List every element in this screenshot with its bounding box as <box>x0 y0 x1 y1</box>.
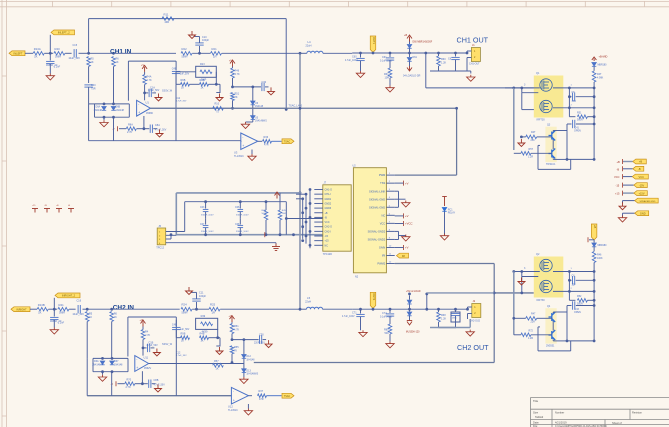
svg-text:TPC12D: TPC12D <box>323 253 332 256</box>
svg-text:R4B: R4B <box>200 332 205 335</box>
resistor R4B <box>200 83 209 87</box>
svg-text:Title: Title <box>533 399 539 403</box>
svg-text:R8A: R8A <box>128 123 133 126</box>
junction out 2 <box>425 308 428 311</box>
capacitor C16 series <box>78 305 80 313</box>
resistor R4B2 <box>142 327 144 330</box>
ground C8B <box>155 385 162 393</box>
svg-text:1K: 1K <box>201 86 204 89</box>
resistor R52b <box>521 333 531 337</box>
wire <box>231 354 233 363</box>
wire gate rails <box>505 87 540 89</box>
power -B harness <box>622 166 624 171</box>
svg-text:GAIN: GAIN <box>379 246 385 250</box>
wire <box>372 308 375 311</box>
ground big <box>618 216 626 223</box>
svg-text:D12: D12 <box>246 355 251 358</box>
wire relay <box>444 212 446 235</box>
svg-text:1K: 1K <box>181 340 184 343</box>
wire <box>111 322 113 359</box>
ground <box>49 64 51 74</box>
capacitor C11 <box>196 302 198 309</box>
wire <box>232 101 234 109</box>
op-amp U11 <box>135 356 149 372</box>
resistor R40 <box>54 52 65 56</box>
wire Q3 inner box <box>553 130 567 132</box>
sheet border inner <box>0 6 669 8</box>
power +V U1 <box>142 65 147 72</box>
wire <box>176 337 180 339</box>
resistor R41 <box>58 307 69 311</box>
ground C30 <box>268 87 275 95</box>
svg-text:15R: 15R <box>572 100 577 103</box>
svg-text:GND2: GND2 <box>325 202 332 205</box>
wire inner rect 2 <box>128 316 176 318</box>
svg-text:1uF_50V: 1uF_50V <box>180 74 190 76</box>
wire U12 input <box>231 395 233 397</box>
svg-text:25K: 25K <box>531 139 536 142</box>
wire V2 PWM1 loop <box>456 108 458 175</box>
svg-text:CH1-I: CH1-I <box>325 193 332 196</box>
power symbol 3 <box>56 209 62 213</box>
wire <box>300 308 307 310</box>
wire pin stubs <box>166 231 185 233</box>
svg-text:R21: R21 <box>212 47 218 51</box>
svg-text:R9B: R9B <box>181 79 186 82</box>
svg-text:C60: C60 <box>352 56 357 59</box>
power +V mid <box>230 60 235 67</box>
svg-text:PWM: PWM <box>379 173 385 177</box>
wire Q4 outer box <box>537 327 539 351</box>
svg-text:599R: 599R <box>59 311 65 314</box>
svg-text:TPC12: TPC12 <box>156 247 164 250</box>
svg-text:4.7uF_50V: 4.7uF_50V <box>146 345 158 347</box>
connector J2 <box>472 304 481 318</box>
svg-text:SSSV_W: SSSV_W <box>162 343 173 346</box>
diode D6A 1N4148 <box>102 107 106 111</box>
resistor R61 <box>388 68 392 78</box>
svg-text:1K: 1K <box>34 55 38 59</box>
svg-text:1N4148WS: 1N4148WS <box>246 374 258 376</box>
svg-text:R41: R41 <box>59 303 65 307</box>
svg-text:+V: +V <box>405 181 409 185</box>
resistor R10 on rail <box>213 107 224 111</box>
svg-text:04-LOADLO-DR: 04-LOADLO-DR <box>403 75 421 78</box>
ground mid <box>216 92 220 94</box>
power +B arrow <box>407 35 412 42</box>
gnd port <box>623 212 635 214</box>
resistor R6B vertical <box>110 312 114 322</box>
svg-text:TSAC: TSAC <box>284 395 291 398</box>
wire <box>65 52 72 54</box>
power VCC harness <box>622 174 624 179</box>
power symbol 4 <box>68 209 74 213</box>
svg-text:500: 500 <box>385 332 390 335</box>
svg-text:U11: U11 <box>144 356 149 360</box>
wire <box>209 337 221 339</box>
resistor R63 <box>437 308 440 311</box>
svg-text:C61: C61 <box>382 56 387 59</box>
port CH1 tag <box>282 139 294 144</box>
wire <box>593 240 595 243</box>
diode U6 1N4148 <box>251 101 255 105</box>
svg-text:VCC: VCC <box>325 221 330 224</box>
connector J5 TPC12 <box>157 228 166 245</box>
svg-text:+: + <box>136 366 138 370</box>
wire <box>44 52 53 54</box>
svg-text:2.7K: 2.7K <box>126 386 131 389</box>
wire <box>300 52 307 54</box>
svg-text:OUT2: OUT2 <box>372 293 376 300</box>
svg-text:1N4148WS: 1N4148WS <box>255 121 267 123</box>
svg-text:-15: -15 <box>616 184 620 188</box>
wire <box>49 35 51 61</box>
wire <box>137 128 150 130</box>
svg-text:4.99K: 4.99K <box>597 77 604 80</box>
wire bypass rail1 left drop <box>175 193 177 235</box>
capacitor C62 <box>568 95 571 98</box>
resistor R51B <box>230 346 234 354</box>
junction dots clamp 2 <box>101 357 104 360</box>
resistor R21 <box>211 52 222 56</box>
diode U5 1N4148WS <box>251 116 255 120</box>
power arrow bypass <box>275 192 280 199</box>
ground C8A <box>156 130 163 138</box>
power +15 harness <box>622 191 624 196</box>
svg-text:+: + <box>233 398 235 402</box>
wire inner rect 1 <box>128 60 176 62</box>
power +V pin2 <box>403 181 405 186</box>
power +B harness <box>622 159 624 164</box>
capacitor C50 <box>260 335 262 343</box>
svg-text:U12: U12 <box>228 405 233 409</box>
diode D61 <box>409 53 411 57</box>
power +V pin6 <box>403 213 405 218</box>
svg-text:GND1: GND1 <box>325 198 332 201</box>
svg-text:VCC: VCC <box>614 175 620 179</box>
svg-text:-B: -B <box>325 216 328 219</box>
wire <box>30 308 37 310</box>
capacitor C10 <box>199 46 201 53</box>
wire <box>48 308 57 310</box>
svg-text:Size: Size <box>533 411 539 415</box>
svg-text:C30: C30 <box>262 81 267 84</box>
resistor R5B vertical <box>85 312 89 322</box>
svg-text:R49: R49 <box>201 315 206 318</box>
svg-text:-15V: -15V <box>639 184 645 187</box>
svg-text:R52: R52 <box>577 295 582 298</box>
svg-text:330uF_100V: 330uF_100V <box>201 231 214 233</box>
wire <box>79 52 89 54</box>
svg-text:SIGNAL-GND2: SIGNAL-GND2 <box>368 229 386 233</box>
wire <box>438 70 440 71</box>
svg-text:10R: 10R <box>385 77 390 80</box>
svg-text:R5T: R5T <box>529 148 534 151</box>
wire bypass rail2 <box>185 201 287 203</box>
svg-text:C16: C16 <box>77 300 82 303</box>
svg-text:0.1uF_400V: 0.1uF_400V <box>380 317 393 319</box>
svg-text:1.2R: 1.2R <box>528 156 533 159</box>
svg-text:R4B: R4B <box>200 79 205 82</box>
mosfet Q2A <box>540 259 552 271</box>
wire mid cap 2 <box>232 339 259 341</box>
earth pin5 <box>399 198 406 200</box>
power -15 harness <box>622 183 624 188</box>
svg-text:2.7K: 2.7K <box>127 131 132 134</box>
svg-text:R72: R72 <box>529 330 534 333</box>
wire out drop 2 <box>426 294 428 309</box>
wire out rail 2 <box>427 292 494 294</box>
svg-text:500R: 500R <box>262 213 267 215</box>
capacitor C2B <box>50 317 58 319</box>
svg-text:OPEN: OPEN <box>574 130 581 133</box>
svg-text:1R: 1R <box>213 55 217 59</box>
wire U12 clamp chain <box>243 338 246 341</box>
wire Q1 source row <box>553 87 594 89</box>
wire <box>142 340 144 356</box>
svg-text:+VCC: +VCC <box>405 222 413 226</box>
capacitor C33 <box>567 305 572 307</box>
diode D6B 1N4148 <box>111 107 115 111</box>
resistor R46B <box>231 322 233 324</box>
svg-text:VCC: VCC <box>639 175 645 179</box>
svg-text:75R: 75R <box>91 88 96 91</box>
resistor R9B <box>181 83 190 87</box>
power -B arrow 2 <box>407 321 412 326</box>
svg-text:IRF730: IRF730 <box>537 299 546 302</box>
resistor R11 feedback <box>162 17 174 21</box>
svg-text:CH2-O: CH2-O <box>325 226 333 229</box>
op-amp U12 <box>231 387 248 404</box>
svg-text:+: + <box>138 111 140 115</box>
wire <box>89 52 114 54</box>
wire stage bottom rail <box>89 140 241 142</box>
svg-text:SPEAKER GND: SPEAKER GND <box>640 200 656 203</box>
wire <box>113 67 115 104</box>
svg-text:TL1451C: TL1451C <box>228 409 238 412</box>
svg-text:-B: -B <box>617 167 620 171</box>
wire bypass rail1 top <box>176 192 301 194</box>
port OUT1 vertical <box>370 36 376 53</box>
svg-text:CH1 IN: CH1 IN <box>110 49 132 56</box>
svg-text:INLEFT_2: INLEFT_2 <box>58 31 70 35</box>
svg-text:1N4148: 1N4148 <box>94 109 103 112</box>
wire <box>222 52 300 54</box>
wire <box>87 308 112 310</box>
svg-text:+15: +15 <box>325 240 330 243</box>
diode D13 1N4148WS <box>242 369 246 373</box>
ground clamp <box>103 117 105 120</box>
svg-text:+V: +V <box>405 214 409 218</box>
capacitor C40 series <box>84 85 92 87</box>
svg-text:1K: 1K <box>116 61 119 64</box>
wire <box>69 308 76 310</box>
svg-text:2.2nF: 2.2nF <box>58 322 65 325</box>
resistor R26 DNP box <box>196 318 218 329</box>
svg-text:+15V: +15V <box>639 192 645 195</box>
wire <box>220 308 300 310</box>
inductor L5 <box>307 307 323 309</box>
wire U1 out rail <box>150 107 286 109</box>
svg-text:+B: +B <box>617 160 621 164</box>
ground C11 <box>191 291 197 293</box>
wire mid rail <box>205 218 207 224</box>
wire U12 out <box>248 395 252 397</box>
svg-text:7K: 7K <box>234 349 237 352</box>
wire squiggle 2 <box>267 395 282 397</box>
diode D63 <box>592 243 596 247</box>
wire <box>323 52 352 54</box>
port CH2 tag <box>282 393 294 398</box>
ground pin8-9 <box>399 235 406 237</box>
port INRIGHT_2 <box>55 293 80 298</box>
svg-text:22R: 22R <box>531 320 536 323</box>
svg-text:R47: R47 <box>531 313 536 316</box>
resistor R13B <box>37 307 48 311</box>
svg-text:SIGNAL-LINK: SIGNAL-LINK <box>369 189 385 193</box>
svg-text:TIP41C1: TIP41C1 <box>546 163 556 166</box>
svg-text:4.7uF_100V: 4.7uF_100V <box>345 60 358 62</box>
resistor R5 vertical <box>87 57 91 67</box>
speaker gnd port <box>623 200 635 202</box>
svg-text:+V: +V <box>229 315 232 318</box>
resistor R57 <box>213 364 224 368</box>
svg-text:R24: R24 <box>182 303 188 307</box>
wire main out <box>352 52 467 54</box>
power +VCC pin7 <box>403 221 405 226</box>
wire <box>323 308 353 310</box>
svg-text:C4B: C4B <box>172 68 177 71</box>
svg-text:C8B: C8B <box>154 379 159 382</box>
wire pin3-4 link <box>395 190 399 192</box>
wire bypass rail3 <box>176 234 293 236</box>
wire pin8-9 link <box>395 230 399 232</box>
svg-text:1.2R: 1.2R <box>528 337 533 340</box>
capacitor C71 pol <box>359 308 362 311</box>
svg-text:1N4148: 1N4148 <box>116 109 125 112</box>
svg-text:4/21/2019: 4/21/2019 <box>555 421 567 425</box>
svg-text:+V: +V <box>229 60 232 63</box>
ground out <box>467 75 475 82</box>
transistor highlight Q4 <box>545 308 556 343</box>
svg-text:SSSV_W: SSSV_W <box>162 90 173 93</box>
capacitor C73 DNS <box>454 308 457 311</box>
ground U12 <box>247 404 249 409</box>
wire Q2B drain row <box>553 290 594 292</box>
svg-text:C03: C03 <box>200 206 205 209</box>
transistor Q3A <box>549 131 556 141</box>
svg-text:RC1: RC1 <box>448 208 453 211</box>
resistor R36 <box>263 140 272 144</box>
svg-text:IRI: IRI <box>402 255 405 258</box>
svg-text:10uF_50V: 10uF_50V <box>72 313 84 316</box>
svg-text:4.7uF_50V: 4.7uF_50V <box>155 130 167 132</box>
svg-text:+B: +B <box>325 212 328 215</box>
svg-text:CH1-O: CH1-O <box>325 189 333 192</box>
wire diode clamp loop 2 <box>93 357 128 359</box>
wire <box>112 308 180 310</box>
power -V U11 <box>115 381 117 386</box>
wire diode clamp loop <box>95 103 130 105</box>
resistor R25 <box>209 307 220 311</box>
svg-text:U3: U3 <box>234 151 238 155</box>
wire U3 out <box>258 140 262 142</box>
svg-text:C8A: C8A <box>155 124 160 127</box>
svg-text:500R: 500R <box>282 213 287 215</box>
wire feedback top <box>89 18 287 20</box>
capacitor C63 <box>568 279 571 282</box>
svg-text:4.7uF_50V: 4.7uF_50V <box>154 385 166 387</box>
op-amp U3 <box>241 133 258 150</box>
svg-text:22uH: 22uH <box>305 301 311 304</box>
svg-text:CH2-I: CH2-I <box>325 230 332 233</box>
capacitor C4B series <box>172 71 180 73</box>
svg-text:4.7K: 4.7K <box>235 73 240 76</box>
transistor highlight Q3 <box>545 127 556 162</box>
svg-text:IRF730: IRF730 <box>537 119 546 122</box>
svg-text:0.1uF_100V: 0.1uF_100V <box>380 61 393 63</box>
wire <box>176 83 181 85</box>
svg-text:2.2nF: 2.2nF <box>54 66 61 69</box>
port INRIGHT <box>11 307 30 312</box>
svg-text:4.7uF_100V: 4.7uF_100V <box>342 316 355 318</box>
power -V U1 <box>117 126 119 131</box>
svg-text:1K: 1K <box>181 86 184 89</box>
svg-text:MU150A-120: MU150A-120 <box>406 331 420 334</box>
svg-text:1.2K: 1.2K <box>441 62 446 65</box>
power +V mid 2 <box>230 316 235 323</box>
svg-text:47R: 47R <box>264 144 269 147</box>
power -B mosfet <box>518 278 525 286</box>
resistor R70 <box>118 383 125 385</box>
capacitor C61 <box>389 52 392 55</box>
wire Q1 link vertical <box>568 88 570 117</box>
capacitor C60 pol <box>359 52 362 55</box>
svg-text:TSAC: TSAC <box>284 141 291 144</box>
svg-text:CH2 IN: CH2 IN <box>113 304 135 311</box>
resistor R23 DNP box <box>196 66 217 77</box>
ic U5 body <box>323 185 351 251</box>
wire Q1B drain row <box>553 107 594 109</box>
svg-text:599R: 599R <box>182 56 188 59</box>
ground C1B <box>153 349 160 357</box>
svg-text:DNS: DNS <box>452 318 457 320</box>
svg-text:22uH: 22uH <box>306 45 312 48</box>
svg-text:PWM2: PWM2 <box>377 262 385 266</box>
svg-text:OPEN: OPEN <box>574 311 581 314</box>
svg-text:+B: +B <box>639 160 643 164</box>
svg-text:100pF: 100pF <box>199 295 207 298</box>
power +V pin10 <box>403 245 405 250</box>
mosfet Q2B <box>540 280 552 292</box>
transistor Q4A <box>549 312 556 322</box>
port +B vertical <box>591 224 597 240</box>
diode D12 1N4148 <box>242 355 246 359</box>
svg-text:INRIGHT_2: INRIGHT_2 <box>62 295 76 298</box>
diode D7B 1N4148 <box>110 361 114 365</box>
svg-text:2.7K: 2.7K <box>147 79 152 82</box>
svg-text:MBR180: MBR180 <box>598 245 608 247</box>
svg-text:+B: +B <box>404 34 407 37</box>
svg-text:Revision: Revision <box>632 411 643 415</box>
svg-text:R25: R25 <box>210 303 216 307</box>
diode D62 <box>592 63 596 67</box>
svg-text:1K: 1K <box>114 316 117 319</box>
svg-text:VCC: VCC <box>380 221 386 225</box>
svg-text:NC: NC <box>381 213 385 217</box>
svg-text:1N4148: 1N4148 <box>246 359 255 361</box>
relay RC1 power <box>442 197 447 207</box>
